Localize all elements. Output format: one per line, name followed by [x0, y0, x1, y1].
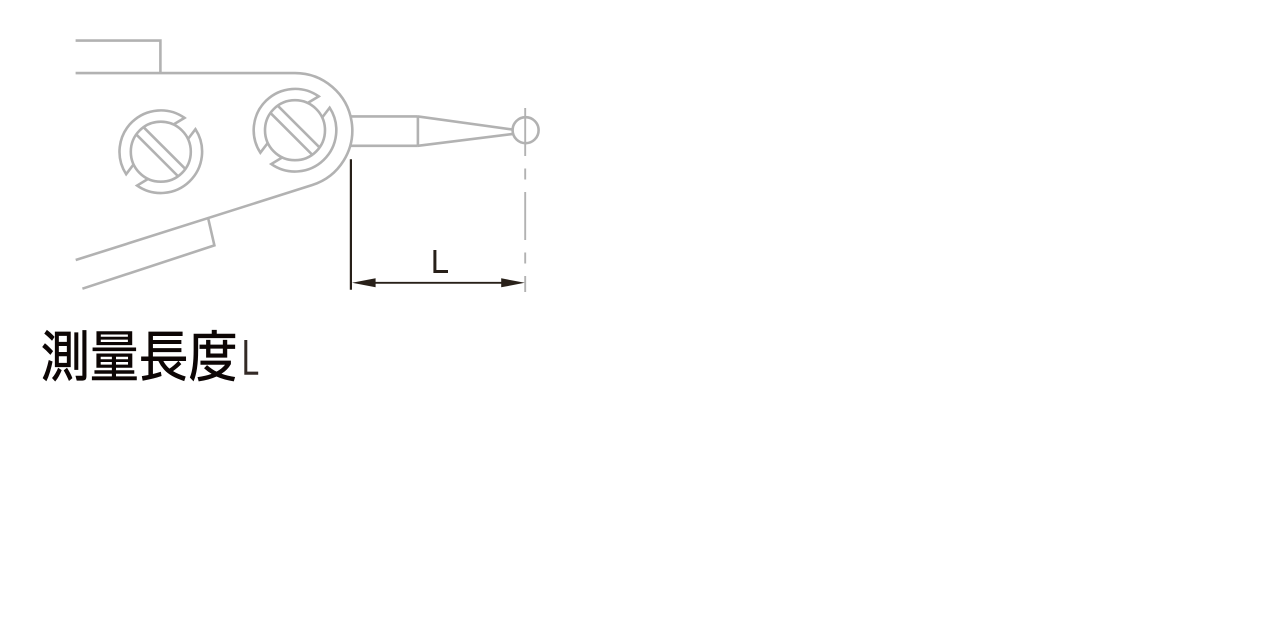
screw S1 left inner circle [131, 122, 191, 182]
body top edge, rounded nose arc, sloped bottom edge [76, 73, 353, 260]
dimension label L [433, 250, 448, 273]
right arrowhead [501, 278, 525, 287]
caption character 量 [92, 331, 137, 380]
screw S1 left outer ring arc 2 with pointed ends [137, 129, 202, 193]
contact ball [513, 117, 539, 143]
screw S2 right pivot outer ring arc 1 with pointed ends [254, 89, 319, 153]
ball-center vertical centerline (dash-dot) [524, 108, 526, 292]
screw S2 right pivot slot edge 2 [270, 113, 312, 155]
screw S1 left: slotted clamp screw head [119, 110, 202, 193]
screw S2 right pivot inner circle [265, 100, 325, 160]
left arrowhead [352, 278, 376, 287]
tapered cone [418, 116, 513, 129]
mounting tab top-left [76, 41, 161, 74]
dimension extension line at stylus base [350, 159, 352, 290]
dimension line L [362, 282, 515, 284]
caption character 度 [190, 330, 235, 382]
indicator body outline [76, 41, 353, 289]
screw S2 right pivot slot edge 1 [278, 106, 320, 148]
stylus stem [351, 116, 514, 145]
caption character 測 [42, 330, 86, 382]
screw S2 right pivot: slotted clamp screw head [254, 89, 337, 172]
screw S1 left slot edge 2 [136, 134, 178, 176]
caption character 長 [141, 332, 186, 382]
lever arm bar: right end edge and bottom edge [82, 218, 214, 289]
stem/cone joint line [417, 116, 420, 145]
screw S2 right pivot outer ring arc 2 with pointed ends [271, 108, 336, 172]
caption letter L [244, 340, 258, 375]
screw S1 left slot edge 1 [144, 127, 186, 169]
screw S1 left outer ring arc 1 with pointed ends [119, 110, 184, 174]
